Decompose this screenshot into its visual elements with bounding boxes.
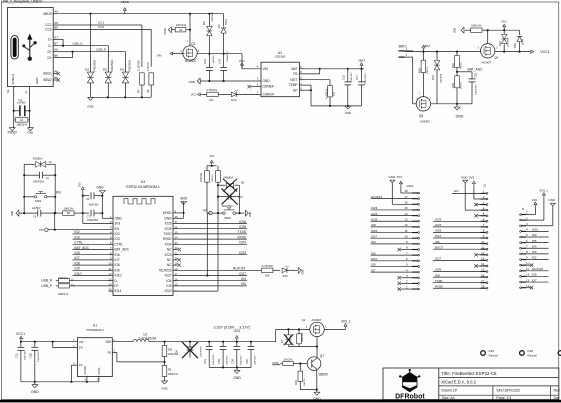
svg-text:IO7: IO7 xyxy=(532,278,537,282)
svg-text:CN3165: CN3165 xyxy=(275,55,286,59)
svg-text:C15: C15 xyxy=(342,75,346,80)
svg-text:VBAT: VBAT xyxy=(423,44,430,48)
svg-text:NC: NC xyxy=(167,258,172,262)
svg-text:10uF/25V: 10uF/25V xyxy=(255,355,257,365)
svg-text:R15: R15 xyxy=(265,274,270,277)
svg-text:IO5: IO5 xyxy=(166,284,171,288)
svg-text:RX0D: RX0D xyxy=(435,284,443,288)
svg-text:TX0D: TX0D xyxy=(238,230,247,234)
svg-text:GND: GND xyxy=(189,80,195,84)
svg-text:D16: D16 xyxy=(513,43,517,48)
svg-text:IO9: IO9 xyxy=(75,267,80,271)
svg-text:NC: NC xyxy=(167,263,172,267)
svg-text:IO8: IO8 xyxy=(371,223,376,227)
svg-text:GND: GND xyxy=(180,197,188,201)
svg-text:GND: GND xyxy=(164,216,172,220)
svg-text:GND: GND xyxy=(389,175,397,179)
svg-text:VCC1: VCC1 xyxy=(540,50,550,54)
svg-text:10: 10 xyxy=(526,261,530,265)
svg-text:PG: PG xyxy=(79,363,83,367)
svg-text:RX0D: RX0D xyxy=(237,235,246,239)
svg-text:IO23: IO23 xyxy=(239,251,246,255)
svg-text:D13: D13 xyxy=(231,98,237,102)
svg-text:VIN: VIN xyxy=(532,198,537,202)
svg-text:IO25: IO25 xyxy=(435,229,442,233)
svg-text:IO7: IO7 xyxy=(371,268,376,272)
svg-text:SS34: SS34 xyxy=(523,39,525,45)
svg-text:IO24: IO24 xyxy=(435,223,442,227)
svg-text:IO26: IO26 xyxy=(165,222,172,226)
svg-text:10K/1%: 10K/1% xyxy=(300,332,304,342)
svg-text:R24: R24 xyxy=(168,348,173,351)
svg-text:BAT_ADC: BAT_ADC xyxy=(75,246,90,250)
svg-text:12: 12 xyxy=(404,223,408,227)
svg-text:CC2: CC2 xyxy=(45,28,52,32)
svg-text:NC/IO15: NC/IO15 xyxy=(233,266,246,270)
svg-text:SHIELD: SHIELD xyxy=(11,74,15,85)
svg-text:IO10: IO10 xyxy=(532,228,539,232)
svg-text:GND: GND xyxy=(27,131,33,135)
svg-text:IO6: IO6 xyxy=(532,273,537,277)
svg-text:04025DA: 04025DA xyxy=(33,158,43,161)
svg-text:10K/1%: 10K/1% xyxy=(63,207,74,211)
svg-text:D-: D- xyxy=(48,44,51,48)
svg-text:C35: C35 xyxy=(245,359,249,364)
svg-text:GND: GND xyxy=(163,28,167,34)
svg-text:KiCad E.D.A. 9.0.2: KiCad E.D.A. 9.0.2 xyxy=(442,380,477,385)
svg-text:GND: GND xyxy=(35,77,39,84)
svg-text:EN: EN xyxy=(115,227,120,231)
svg-text:IO4: IO4 xyxy=(532,244,537,248)
svg-text:1M0/1%: 1M0/1% xyxy=(16,122,27,126)
svg-text:10: 10 xyxy=(481,240,485,244)
svg-text:IO27: IO27 xyxy=(165,274,172,278)
svg-text:GND: GND xyxy=(250,212,252,217)
svg-text:USB_C_Receptacle_USB2.0: USB_C_Receptacle_USB2.0 xyxy=(1,0,42,4)
svg-text:D11: D11 xyxy=(283,274,289,278)
svg-text:GND: GND xyxy=(461,175,469,179)
svg-text:15: 15 xyxy=(404,206,408,210)
svg-text:Q6: Q6 xyxy=(495,55,499,59)
svg-text:BOOT: BOOT xyxy=(435,245,443,249)
svg-text:10K/1%: 10K/1% xyxy=(427,66,429,74)
svg-text:Q1: Q1 xyxy=(191,42,195,46)
svg-text:SKU:DFR1222: SKU:DFR1222 xyxy=(496,389,520,393)
svg-text:TPS62822DLC: TPS62822DLC xyxy=(86,328,104,332)
svg-text:GDI1: GDI1 xyxy=(407,184,414,188)
svg-text:D3: D3 xyxy=(103,68,107,72)
svg-text:DONE#: DONE# xyxy=(263,85,274,89)
svg-text:4.7K/1%: 4.7K/1% xyxy=(262,264,273,268)
svg-text:04025DA: 04025DA xyxy=(440,73,443,83)
svg-text:IO23: IO23 xyxy=(371,206,378,210)
svg-text:390K/1%: 390K/1% xyxy=(168,373,179,376)
svg-text:J2: J2 xyxy=(483,184,486,188)
svg-text:GND: GND xyxy=(303,269,305,274)
svg-text:U1: U1 xyxy=(93,324,97,328)
svg-text:14: 14 xyxy=(404,212,408,216)
svg-text:Q7: Q7 xyxy=(320,354,324,358)
svg-text:IO8: IO8 xyxy=(75,261,80,265)
svg-text:C18: C18 xyxy=(474,73,478,78)
svg-text:15: 15 xyxy=(481,268,485,272)
svg-text:ESP32-C5-WROOM-1: ESP32-C5-WROOM-1 xyxy=(126,185,160,189)
svg-text:EPAD: EPAD xyxy=(163,211,172,215)
svg-text:A4: A4 xyxy=(54,10,58,14)
svg-text:04025DA: 04025DA xyxy=(110,60,114,72)
svg-text:IO25: IO25 xyxy=(165,227,172,231)
svg-text:C22: C22 xyxy=(15,353,19,358)
svg-text:D7: D7 xyxy=(280,339,284,343)
svg-text:VIN: VIN xyxy=(79,340,83,344)
svg-text:BAT_ADC: BAT_ADC xyxy=(468,68,484,72)
svg-text:VCC: VCC xyxy=(501,19,507,23)
svg-text:100nF/50V: 100nF/50V xyxy=(201,346,203,357)
svg-text:100nF/50V: 100nF/50V xyxy=(222,206,234,208)
svg-text:EN: EN xyxy=(79,346,83,350)
svg-text:DFRobot: DFRobot xyxy=(395,393,425,400)
svg-text:IO23: IO23 xyxy=(165,253,172,257)
svg-text:BAT_ADC: BAT_ADC xyxy=(115,248,130,252)
svg-text:IO6: IO6 xyxy=(371,251,376,255)
svg-text:GND: GND xyxy=(161,386,167,390)
svg-text:04025DA: 04025DA xyxy=(507,37,510,47)
svg-text:B6: B6 xyxy=(54,54,58,58)
svg-text:IO7: IO7 xyxy=(75,256,80,260)
svg-text:1uF/25V: 1uF/25V xyxy=(213,55,215,64)
svg-text:16: 16 xyxy=(481,273,485,277)
svg-text:R20: R20 xyxy=(451,83,455,88)
svg-text:PGND: PGND xyxy=(83,366,87,375)
svg-text:IO25: IO25 xyxy=(239,225,246,229)
svg-text:100nF/50V: 100nF/50V xyxy=(87,220,99,222)
svg-text:USB_P: USB_P xyxy=(96,48,106,52)
svg-text:EN: EN xyxy=(56,191,61,195)
svg-text:GND: GND xyxy=(115,216,123,220)
svg-text:04025DA: 04025DA xyxy=(92,60,96,72)
svg-text:Fiducial: Fiducial xyxy=(489,353,498,357)
svg-text:A5: A5 xyxy=(54,21,58,25)
svg-text:GND: GND xyxy=(96,185,104,189)
svg-text:04025DA: 04025DA xyxy=(211,12,214,22)
svg-text:3V3: 3V3 xyxy=(209,154,214,158)
svg-text:FID2: FID2 xyxy=(528,349,534,353)
svg-text:04025DA: 04025DA xyxy=(127,60,131,72)
svg-text:IO3: IO3 xyxy=(75,235,80,239)
svg-text:IO9: IO9 xyxy=(532,233,537,237)
svg-text:D5: D5 xyxy=(202,21,206,25)
svg-text:10K/1%: 10K/1% xyxy=(304,378,306,386)
svg-text:VBUS: VBUS xyxy=(121,0,129,4)
svg-text:A6: A6 xyxy=(54,48,58,52)
svg-text:Q5: Q5 xyxy=(419,114,423,118)
svg-text:SS34: SS34 xyxy=(226,19,228,25)
svg-text:17: 17 xyxy=(481,279,485,283)
svg-text:VBUS: VBUS xyxy=(43,12,53,16)
svg-text:EN: EN xyxy=(454,189,458,193)
svg-text:EP: EP xyxy=(293,88,297,92)
svg-text:10uF/25V: 10uF/25V xyxy=(240,355,242,365)
svg-text:12: 12 xyxy=(526,273,530,277)
svg-text:D+: D+ xyxy=(47,56,51,60)
svg-text:IO26: IO26 xyxy=(435,268,442,272)
svg-text:IO4: IO4 xyxy=(241,277,246,281)
svg-text:GND: GND xyxy=(12,211,14,216)
svg-text:GND: GND xyxy=(87,105,93,109)
svg-text:3V3: 3V3 xyxy=(115,222,121,226)
svg-text:3V3: 3V3 xyxy=(469,175,475,179)
svg-text:FID1: FID1 xyxy=(489,349,495,353)
svg-text:100nF/16V: 100nF/16V xyxy=(38,351,40,362)
svg-text:IO8: IO8 xyxy=(435,273,440,277)
svg-text:GND: GND xyxy=(456,115,464,119)
svg-text:1uF/50V: 1uF/50V xyxy=(32,208,41,210)
svg-text:D15: D15 xyxy=(498,41,502,46)
svg-text:10K/1%: 10K/1% xyxy=(212,174,214,182)
svg-text:R6: R6 xyxy=(67,211,71,215)
svg-text:IO9: IO9 xyxy=(115,268,120,272)
svg-text:10K/1%: 10K/1% xyxy=(199,172,203,182)
svg-text:IO9: IO9 xyxy=(435,240,440,244)
svg-text:Rev: Rev xyxy=(554,389,561,393)
svg-text:D2: D2 xyxy=(85,68,89,72)
svg-text:IO26: IO26 xyxy=(371,229,378,233)
svg-text:GND: GND xyxy=(345,111,351,115)
svg-text:18: 18 xyxy=(481,284,485,288)
svg-text:TP2: TP2 xyxy=(39,228,44,232)
svg-text:IO4: IO4 xyxy=(166,279,171,283)
svg-text:1nF/2kV: 1nF/2kV xyxy=(17,101,26,104)
svg-text:10: 10 xyxy=(404,234,408,238)
svg-text:IO2: IO2 xyxy=(115,232,120,236)
svg-text:3V3_1: 3V3_1 xyxy=(341,319,351,323)
svg-text:13: 13 xyxy=(481,257,485,261)
svg-text:PGND: PGND xyxy=(8,131,18,135)
svg-text:C14: C14 xyxy=(217,59,221,64)
svg-text:TEMP: TEMP xyxy=(289,83,298,87)
svg-text:D6: D6 xyxy=(217,24,221,28)
svg-text:R18: R18 xyxy=(417,68,421,73)
svg-text:RX0D: RX0D xyxy=(163,237,172,241)
svg-text:CTRL: CTRL xyxy=(75,241,84,245)
svg-text:22uF/16V: 22uF/16V xyxy=(351,72,353,82)
svg-text:100nF/50V: 100nF/50V xyxy=(213,354,215,365)
svg-text:IO3: IO3 xyxy=(532,250,537,254)
svg-text:12: 12 xyxy=(481,251,485,255)
svg-text:IO25: IO25 xyxy=(371,217,378,221)
svg-text:IO5: IO5 xyxy=(532,239,537,243)
svg-text:AO3407: AO3407 xyxy=(185,59,197,63)
svg-text:IO10: IO10 xyxy=(115,274,122,278)
svg-text:U3: U3 xyxy=(141,180,145,184)
svg-text:3V3: 3V3 xyxy=(234,329,240,333)
svg-text:100nF/50V: 100nF/50V xyxy=(227,51,229,62)
svg-text:J1: J1 xyxy=(522,207,525,211)
svg-text:NC/IO15: NC/IO15 xyxy=(371,195,383,199)
svg-text:C30: C30 xyxy=(175,350,179,355)
svg-text:GND: GND xyxy=(263,79,271,83)
svg-text:IO6: IO6 xyxy=(75,251,80,255)
svg-text:IO27: IO27 xyxy=(239,272,246,276)
svg-text:14: 14 xyxy=(526,284,530,288)
svg-text:5.1K/1%: 5.1K/1% xyxy=(148,62,150,71)
svg-text:11: 11 xyxy=(526,267,529,271)
svg-text:CC1: CC1 xyxy=(45,23,52,27)
svg-text:R10: R10 xyxy=(294,380,298,385)
svg-text:SBU1: SBU1 xyxy=(43,72,52,76)
svg-text:D-: D- xyxy=(115,279,118,283)
svg-text:C31: C31 xyxy=(203,359,207,364)
svg-text:GND: GND xyxy=(233,376,241,380)
svg-text:Title: FireBeetle2 ESP32-C5: Title: FireBeetle2 ESP32-C5 xyxy=(442,371,498,376)
svg-text:C36: C36 xyxy=(28,353,32,358)
svg-text:10uF/16V: 10uF/16V xyxy=(24,350,26,360)
svg-text:Dat: Dat xyxy=(554,396,560,400)
svg-text:IO10: IO10 xyxy=(435,234,442,238)
svg-text:Fiducial: Fiducial xyxy=(528,353,537,357)
svg-text:AO3400: AO3400 xyxy=(420,119,430,123)
svg-text:D+: D+ xyxy=(47,50,51,54)
svg-text:VCC: VCC xyxy=(239,59,245,63)
svg-text:R19: R19 xyxy=(451,63,455,68)
svg-text:IO27: IO27 xyxy=(435,257,442,261)
svg-text:CC2: CC2 xyxy=(98,25,104,29)
svg-text:USB_P: USB_P xyxy=(41,284,51,288)
svg-text:IO26: IO26 xyxy=(239,220,246,224)
svg-text:10uF/16V: 10uF/16V xyxy=(89,205,99,207)
svg-text:TX0D: TX0D xyxy=(435,279,442,283)
svg-text:SBU2: SBU2 xyxy=(43,78,52,82)
svg-text:FB: FB xyxy=(107,351,111,355)
svg-text:Drawn:LP: Drawn:LP xyxy=(442,389,458,393)
svg-text:BAT: BAT xyxy=(292,67,298,71)
svg-text:IO24: IO24 xyxy=(371,212,378,216)
svg-text:VBAT: VBAT xyxy=(358,58,365,62)
svg-text:GND: GND xyxy=(455,28,457,33)
svg-text:IO24: IO24 xyxy=(239,241,246,245)
svg-text:100nF/16V: 100nF/16V xyxy=(476,84,478,95)
svg-text:C13: C13 xyxy=(203,59,207,64)
svg-text:3V3: 3V3 xyxy=(77,182,81,187)
svg-text:R7: R7 xyxy=(137,89,141,93)
svg-text:IO10: IO10 xyxy=(75,272,82,276)
svg-text:3.32V [3.26V ... 3.37V]: 3.32V [3.26V ... 3.37V] xyxy=(214,325,250,329)
svg-text:5.1K/1%: 5.1K/1% xyxy=(137,60,141,71)
svg-text:C17: C17 xyxy=(355,75,359,80)
svg-text:A7: A7 xyxy=(54,35,58,39)
svg-text:SW2: SW2 xyxy=(224,216,231,220)
svg-text:IO5: IO5 xyxy=(241,282,246,286)
svg-text:TX0D: TX0D xyxy=(163,232,172,236)
svg-text:GND: GND xyxy=(31,390,39,394)
svg-text:10K/1%: 10K/1% xyxy=(176,23,187,27)
svg-text:IO24: IO24 xyxy=(165,242,172,246)
svg-text:VIN: VIN xyxy=(157,53,162,57)
svg-text:IO23: IO23 xyxy=(435,218,442,222)
svg-text:GND: GND xyxy=(313,397,321,401)
svg-text:IO7: IO7 xyxy=(115,258,120,262)
svg-text:IO2: IO2 xyxy=(75,230,80,234)
svg-text:D4: D4 xyxy=(120,68,124,72)
svg-text:IO3: IO3 xyxy=(371,240,376,244)
svg-text:Q2: Q2 xyxy=(302,318,306,322)
svg-text:VCC1: VCC1 xyxy=(16,332,25,336)
svg-text:GND: GND xyxy=(548,198,556,202)
svg-text:VIN: VIN xyxy=(263,67,269,71)
svg-text:22R/1%: 22R/1% xyxy=(58,276,68,280)
svg-text:14: 14 xyxy=(481,262,485,266)
svg-text:3V3_1: 3V3_1 xyxy=(539,189,548,193)
svg-text:3V3: 3V3 xyxy=(397,175,403,179)
svg-text:CTRL: CTRL xyxy=(115,242,124,246)
svg-text:TP5: TP5 xyxy=(203,209,208,212)
svg-text:FB: FB xyxy=(293,72,297,76)
svg-text:IO3: IO3 xyxy=(115,237,120,241)
svg-text:CHRG#: CHRG# xyxy=(263,93,274,97)
svg-text:10K/1%: 10K/1% xyxy=(471,24,482,28)
svg-text:4.7K/1%: 4.7K/1% xyxy=(206,88,217,92)
svg-text:S8050: S8050 xyxy=(319,372,328,376)
svg-text:10uF/25V: 10uF/25V xyxy=(227,355,229,365)
svg-text:IO20: IO20 xyxy=(165,289,172,293)
svg-text:1M/1%: 1M/1% xyxy=(460,62,462,69)
svg-text:Page: 1/1: Page: 1/1 xyxy=(496,396,511,400)
svg-text:NC/IO15: NC/IO15 xyxy=(532,267,544,271)
svg-text:IO9: IO9 xyxy=(371,263,376,267)
svg-text:D-: D- xyxy=(71,278,74,282)
svg-text:CTRL: CTRL xyxy=(272,361,279,365)
svg-text:NC/IO15: NC/IO15 xyxy=(159,268,172,272)
svg-text:1K/1%: 1K/1% xyxy=(284,357,293,361)
svg-text:IO2: IO2 xyxy=(532,256,537,260)
svg-text:B7: B7 xyxy=(54,42,58,46)
svg-text:D+: D+ xyxy=(115,284,119,288)
svg-text:IO10: IO10 xyxy=(371,257,378,261)
svg-text:USB_N: USB_N xyxy=(72,42,82,46)
svg-text:AGND: AGND xyxy=(98,367,101,374)
svg-text:IO6: IO6 xyxy=(115,253,120,257)
svg-text:11: 11 xyxy=(405,229,408,233)
svg-text:18: 18 xyxy=(404,189,408,193)
svg-text:ISET: ISET xyxy=(290,78,297,82)
svg-text:AO3407: AO3407 xyxy=(312,318,322,322)
svg-text:SW: SW xyxy=(106,340,111,344)
svg-text:USB_N: USB_N xyxy=(41,279,52,283)
svg-text:CC1: CC1 xyxy=(98,21,104,25)
svg-text:13: 13 xyxy=(404,217,408,221)
svg-text:C33: C33 xyxy=(217,359,221,364)
svg-text:D-: D- xyxy=(48,38,51,42)
svg-text:16: 16 xyxy=(404,201,408,205)
svg-text:17: 17 xyxy=(404,195,408,199)
svg-text:Size: A4: Size: A4 xyxy=(442,396,455,400)
svg-text:VCC: VCC xyxy=(191,93,197,97)
svg-text:B5: B5 xyxy=(54,25,58,29)
svg-text:1M/1%: 1M/1% xyxy=(460,82,462,89)
svg-text:D+: D+ xyxy=(71,283,75,287)
svg-text:IO8: IO8 xyxy=(115,263,120,267)
svg-text:C34: C34 xyxy=(231,359,235,364)
svg-text:IO27: IO27 xyxy=(371,234,378,238)
svg-text:22R/1%: 22R/1% xyxy=(58,292,68,296)
svg-text:IO14: IO14 xyxy=(115,289,122,293)
svg-text:13: 13 xyxy=(526,278,530,282)
svg-text:4.7K/1%: 4.7K/1% xyxy=(324,88,328,99)
svg-text:D14: D14 xyxy=(431,75,435,80)
svg-text:S1: S1 xyxy=(6,89,10,93)
svg-text:100nF/50V: 100nF/50V xyxy=(33,182,45,184)
svg-text:NC: NC xyxy=(167,248,172,252)
